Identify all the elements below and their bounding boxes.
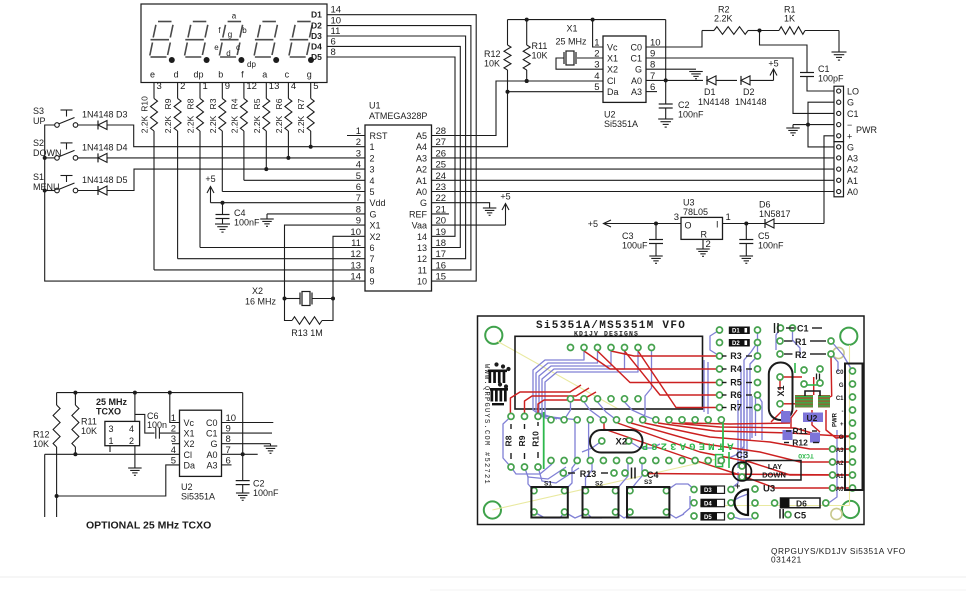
switch S2 DOWN — [33, 138, 78, 160]
svg-text:11: 11 — [418, 265, 427, 275]
svg-text:1N4148: 1N4148 — [698, 97, 730, 107]
svg-text:9: 9 — [225, 81, 230, 92]
svg-text:2.2K: 2.2K — [163, 115, 173, 133]
svg-text:A3: A3 — [206, 460, 217, 470]
svg-text:C4: C4 — [234, 208, 246, 218]
svg-text:R10: R10 — [531, 431, 541, 447]
svg-text:100nF: 100nF — [253, 488, 279, 498]
svg-text:dp: dp — [193, 70, 203, 80]
capacitor C3 100uF — [622, 224, 663, 257]
svg-text:R6: R6 — [274, 98, 284, 109]
PCB green silk lines — [544, 363, 818, 469]
svg-text:R5: R5 — [730, 378, 742, 388]
wire S1/D5 to U1 pin 4 — [107, 169, 365, 190]
IC U2 Si5351A — [594, 36, 660, 129]
svg-text:REF: REF — [409, 209, 428, 219]
svg-text:4: 4 — [356, 160, 361, 171]
svg-text:C2: C2 — [253, 479, 265, 489]
ground below C2 — [658, 119, 673, 127]
svg-text:C5: C5 — [758, 231, 770, 241]
svg-text:A3: A3 — [836, 448, 844, 454]
caption OPTIONAL 25 MHz TCXO — [86, 520, 211, 532]
display segment pin numbers 3 2 1 9 12 13 4 5 — [157, 81, 319, 92]
svg-text:R8: R8 — [186, 98, 196, 109]
svg-text:R7: R7 — [296, 98, 306, 109]
svg-text:R4: R4 — [730, 364, 742, 374]
wire U1 X1 pin 9 to crystal X2 — [285, 225, 366, 298]
diode D1 1N4148 — [698, 76, 737, 107]
wire rail to TCXO pin 4 and C6 — [135, 393, 155, 434]
svg-text:D6: D6 — [759, 200, 771, 210]
svg-text:A2: A2 — [836, 461, 844, 467]
resistor R12 10K (TCXO option) — [33, 393, 60, 517]
svg-text:+: + — [840, 422, 844, 428]
PCB silkscreen X1 footprint — [769, 363, 793, 421]
svg-text:-: - — [842, 409, 844, 415]
svg-text:X2: X2 — [252, 286, 263, 296]
svg-text:10: 10 — [417, 277, 427, 287]
svg-text:1N5817: 1N5817 — [759, 209, 791, 219]
resistor R12 10K — [484, 20, 511, 92]
svg-text:12: 12 — [417, 254, 427, 264]
svg-text:S1: S1 — [544, 481, 552, 488]
svg-text:R11: R11 — [532, 41, 548, 51]
svg-text:3: 3 — [594, 60, 599, 71]
crystal X2 16 MHz — [245, 286, 335, 307]
ground at U2 G pin 8 — [646, 69, 703, 79]
svg-text:A3: A3 — [631, 87, 642, 97]
svg-text:Vdd: Vdd — [370, 198, 386, 208]
wire U2 C1 to connector — [646, 58, 834, 113]
svg-text:+: + — [735, 481, 740, 491]
svg-text:7: 7 — [370, 254, 375, 264]
svg-text:8: 8 — [370, 265, 375, 275]
svg-text:G: G — [839, 383, 844, 389]
resistor R7 2.2K — [296, 83, 314, 149]
svg-text:D4: D4 — [311, 41, 322, 51]
svg-text:2: 2 — [171, 424, 176, 435]
svg-text:100nF: 100nF — [234, 218, 260, 228]
svg-text:UP: UP — [33, 116, 46, 126]
wire D2 from display to U1 pin 31 — [327, 26, 471, 270]
svg-text:3: 3 — [109, 424, 114, 434]
resistor R11 10K (TCXO option) — [72, 393, 97, 457]
ground below C5 — [740, 256, 754, 263]
wire U2 A3 stub (TCXO option) — [222, 464, 232, 466]
wire U2 Vc to rail — [593, 20, 603, 47]
PCB pads display footprint — [568, 345, 655, 402]
svg-text:2: 2 — [129, 436, 134, 446]
svg-text:D2: D2 — [311, 21, 322, 31]
svg-text:R6: R6 — [730, 390, 742, 400]
svg-text:1N4148 D4: 1N4148 D4 — [82, 143, 128, 153]
svg-text:1N4148 D3: 1N4148 D3 — [82, 110, 128, 120]
svg-text:A3: A3 — [416, 153, 427, 163]
svg-text:R11: R11 — [792, 426, 807, 436]
svg-text:D1: D1 — [704, 87, 716, 97]
switch S1 MENU — [33, 172, 78, 193]
svg-text:2: 2 — [356, 137, 361, 148]
svg-text:11: 11 — [331, 26, 341, 37]
svg-text:−: − — [847, 120, 852, 130]
wire U1 A4 to U2 Da (SDA) — [432, 90, 604, 147]
resistor R3 2.2K — [208, 83, 226, 192]
resistor R2 2.2K — [702, 5, 762, 35]
diode D6 1N5817 — [746, 200, 824, 229]
svg-text:S3: S3 — [644, 479, 652, 486]
svg-text:X2: X2 — [370, 232, 381, 242]
PCB pads C3 U3 — [739, 463, 758, 519]
svg-text:dp: dp — [247, 60, 256, 69]
svg-text:4: 4 — [291, 81, 296, 92]
capacitor C1 100pF — [760, 31, 845, 92]
PCB pads switches S1 S2 S3 — [531, 488, 669, 515]
svg-text:3: 3 — [356, 148, 361, 159]
svg-text:6: 6 — [356, 182, 361, 193]
svg-text:100pF: 100pF — [818, 74, 844, 84]
wire U1 A2 to connector — [432, 168, 835, 170]
wire U2 A3 stub — [646, 91, 657, 93]
resistor R6 2.2K — [274, 83, 292, 160]
svg-text:X1: X1 — [776, 385, 786, 396]
svg-text:100nF: 100nF — [678, 110, 704, 120]
svg-text:10K: 10K — [484, 59, 500, 69]
svg-text:U2: U2 — [604, 110, 616, 120]
wire R3 to U1 pin 6 — [222, 191, 365, 193]
svg-text:C0: C0 — [206, 418, 218, 428]
wire U1 REF stub — [432, 213, 450, 215]
diode D5 1N4148 — [78, 175, 128, 195]
PCB connector header outline and labels — [833, 364, 863, 494]
svg-text:14: 14 — [331, 5, 342, 16]
PCB board outline — [478, 316, 865, 525]
ground at U1 pin 8 — [260, 214, 365, 226]
svg-text:2.2K: 2.2K — [274, 115, 284, 133]
svg-text:+: + — [847, 131, 852, 141]
svg-text:G: G — [420, 198, 427, 208]
svg-text:C0: C0 — [630, 43, 642, 53]
svg-text:a: a — [262, 70, 267, 80]
ground after R1 — [832, 31, 847, 61]
svg-text:2: 2 — [594, 49, 599, 60]
svg-text:D5: D5 — [311, 52, 322, 62]
svg-text:2.2K: 2.2K — [208, 115, 218, 133]
PCB silkscreen C5 — [780, 509, 807, 522]
svg-text:78L05: 78L05 — [683, 207, 708, 217]
svg-text:C0: C0 — [836, 370, 844, 376]
svg-text:4: 4 — [594, 71, 599, 82]
PCB silkscreen C1 R1 R2 labels — [775, 323, 827, 360]
svg-text:031421: 031421 — [771, 555, 802, 565]
svg-text:Vc: Vc — [184, 418, 195, 428]
svg-text:2.2K: 2.2K — [140, 115, 150, 133]
wire R8 to U1 pin 11 — [200, 247, 365, 249]
oscillator module 25 MHz TCXO — [96, 397, 140, 452]
footer drawing title text — [771, 546, 906, 565]
svg-text:R3: R3 — [730, 351, 742, 361]
svg-text:R10: R10 — [140, 96, 150, 112]
svg-text:8: 8 — [331, 47, 336, 58]
PCB mounting holes — [484, 327, 859, 520]
svg-text:D2: D2 — [743, 87, 755, 97]
svg-text:3: 3 — [157, 81, 162, 92]
PCB left edge silkscreen text www.qrpguys.com — [482, 364, 490, 485]
svg-text:DOWN: DOWN — [762, 471, 786, 480]
svg-text:5: 5 — [370, 187, 375, 197]
svg-text:b: b — [218, 70, 223, 80]
svg-text:R12: R12 — [792, 438, 808, 448]
wire U2 C0 to R2 — [646, 31, 702, 48]
svg-text:Si5351A: Si5351A — [181, 492, 215, 502]
svg-text:12: 12 — [246, 81, 257, 92]
svg-text:e: e — [150, 70, 155, 80]
svg-text:11: 11 — [351, 238, 361, 249]
PCB blue traces right area — [704, 328, 853, 503]
wire U1 X2 pin 10 to crystal X2 — [333, 236, 365, 298]
svg-text:10K: 10K — [532, 51, 548, 61]
svg-text:Si5351A: Si5351A — [604, 119, 638, 129]
svg-text:R5: R5 — [252, 98, 262, 109]
svg-text:U2: U2 — [807, 413, 818, 423]
svg-text:C1: C1 — [836, 396, 844, 402]
diode D3 1N4148 — [78, 110, 128, 130]
scan artifact line bottom — [0, 577, 966, 590]
svg-text:C5: C5 — [794, 511, 807, 522]
display middle digit segment letters a f g b e d c dp — [214, 12, 256, 70]
PCB pads R13 C4 C3 U3 D6 C5 — [560, 470, 829, 518]
svg-text:1: 1 — [726, 212, 731, 223]
svg-text:RST: RST — [370, 131, 389, 141]
svg-text:1K: 1K — [784, 14, 795, 24]
svg-text:R8: R8 — [504, 435, 514, 446]
svg-text:R9: R9 — [163, 98, 173, 109]
display digits segments — [150, 22, 312, 58]
svg-text:D3: D3 — [311, 31, 322, 41]
svg-text:U3: U3 — [763, 484, 775, 495]
svg-text:X1: X1 — [184, 429, 195, 439]
svg-text:C2: C2 — [678, 100, 690, 110]
svg-text:10K: 10K — [33, 439, 49, 449]
ground below C4 — [215, 224, 230, 232]
crystal X1 25 MHz — [555, 24, 603, 70]
wire U2 C1 stub (TCXO option) — [222, 432, 273, 434]
wire connector PWR plus to D6 — [824, 136, 834, 224]
svg-text:A2: A2 — [847, 165, 858, 175]
power +5 at U1 Vaa — [432, 192, 511, 226]
ground at U3 pin 2 — [696, 239, 710, 256]
PCB yellow jumper traces — [492, 341, 849, 510]
wire U2 A0 row with D1 D2 to +5 — [646, 78, 703, 82]
svg-text:PWR: PWR — [833, 412, 839, 427]
svg-text:A1: A1 — [847, 176, 858, 186]
wire D4 from display to U1 pin 33 — [327, 46, 460, 247]
svg-text:S3: S3 — [33, 106, 44, 116]
svg-text:R13: R13 — [580, 469, 597, 479]
svg-text:D1: D1 — [311, 10, 322, 20]
wire D3 from display to U1 pin 32 — [327, 36, 466, 259]
resistor R10 2.2K — [140, 83, 158, 270]
capacitor C2 100nF (TCXO option) — [236, 393, 279, 498]
PCB pads R3-R7 D1 D2 — [717, 327, 761, 411]
PCB purple pads U2 area — [781, 411, 820, 443]
svg-text:Cl: Cl — [184, 450, 193, 460]
PCB blue traces bottom area — [503, 417, 752, 520]
svg-text:b: b — [242, 26, 247, 35]
svg-text:A3: A3 — [847, 153, 858, 163]
svg-text:A0: A0 — [416, 187, 427, 197]
IC U2 Si5351A (TCXO option) — [171, 410, 236, 501]
svg-text:13: 13 — [269, 81, 280, 92]
PCB pads D3 D4 D5 — [691, 487, 734, 520]
svg-text:C1: C1 — [206, 429, 218, 439]
power +5 after D2 — [768, 59, 778, 81]
svg-text:A1: A1 — [416, 176, 427, 186]
svg-text:R9: R9 — [517, 435, 527, 446]
svg-text:5: 5 — [313, 81, 318, 92]
svg-text:C3: C3 — [622, 231, 634, 241]
ground below C3 — [649, 256, 663, 263]
svg-text:G: G — [847, 98, 854, 108]
wire D1 from display to U1 pin 30 — [327, 15, 476, 281]
svg-text:A0: A0 — [206, 450, 217, 460]
capacitor C6 100n — [147, 411, 180, 439]
svg-text:R: R — [701, 230, 708, 240]
svg-text:G: G — [847, 142, 854, 152]
svg-text:c: c — [285, 70, 290, 80]
svg-text:C1: C1 — [847, 109, 859, 119]
svg-text:G: G — [635, 65, 642, 75]
svg-text:D1: D1 — [732, 329, 740, 335]
svg-text:6: 6 — [370, 243, 375, 253]
svg-text:X2: X2 — [616, 437, 628, 448]
wire U2 A0 row (TCXO option) — [222, 452, 258, 456]
PCB pads connector header — [830, 368, 856, 491]
capacitor C2 100nF — [659, 20, 704, 120]
svg-text:d: d — [226, 49, 230, 58]
switch S3 UP — [33, 106, 78, 127]
power +5 to U1 Vdd — [205, 174, 365, 205]
svg-text:R12: R12 — [484, 49, 501, 59]
resistor R8 2.2K — [186, 83, 204, 248]
svg-text:R12: R12 — [33, 430, 50, 440]
node +V rail above U2 — [508, 18, 666, 22]
svg-text:2.2K: 2.2K — [296, 115, 306, 133]
diode D2 1N4148 — [735, 76, 774, 107]
svg-text:X1: X1 — [566, 24, 577, 34]
svg-text:S2: S2 — [595, 481, 603, 488]
PCB silkscreen R8 R9 R10 labels — [504, 422, 541, 459]
PCB red traces display to resistors — [510, 351, 719, 414]
svg-text:R13 1M: R13 1M — [291, 328, 323, 338]
PCB silkscreen smd cap C2 marks — [817, 374, 820, 380]
ground at U1 pin 22 — [432, 203, 497, 216]
display decimal point dots — [169, 57, 314, 63]
svg-text:a: a — [232, 12, 237, 21]
svg-text:WWW.QRPGUYS.COM #52721: WWW.QRPGUYS.COM #52721 — [482, 364, 490, 485]
svg-text:Vaa: Vaa — [412, 221, 427, 231]
resistor R11 10K — [523, 20, 547, 83]
wire switch common rail to U1 pin 14 — [43, 125, 365, 281]
svg-text:5: 5 — [356, 171, 361, 182]
svg-text:D6: D6 — [796, 498, 807, 508]
svg-text:13: 13 — [350, 260, 361, 271]
IC U1 ATMEGA328P — [350, 101, 446, 292]
PCB pads R8 R9 R10 — [508, 413, 541, 470]
svg-text:A0: A0 — [631, 76, 642, 86]
svg-text:X2: X2 — [184, 439, 195, 449]
wire U1 A3 to connector — [432, 157, 835, 159]
svg-text:R1: R1 — [795, 337, 807, 347]
PCB red traces bottom fan — [604, 423, 853, 488]
PCB green silk text ATMEGA328P — [638, 440, 733, 452]
svg-text:U3: U3 — [683, 198, 695, 208]
PCB silkscreen R13 C4 — [568, 468, 659, 481]
svg-text:A2: A2 — [416, 165, 427, 175]
svg-text:X1: X1 — [370, 221, 381, 231]
capacitor C5 100nF — [739, 222, 784, 257]
wire U2 C0 stub (TCXO option) — [222, 422, 274, 424]
svg-text:100n: 100n — [147, 420, 167, 430]
svg-text:4: 4 — [370, 176, 375, 186]
svg-text:17: 17 — [436, 249, 447, 260]
display digit pin numbers 14 10 11 6 8 — [331, 5, 342, 58]
display module DSP1 (5-digit 7-segment) outline — [141, 4, 327, 83]
PCB silkscreen C3 electrolytic — [733, 450, 752, 491]
svg-text:LO: LO — [847, 87, 859, 97]
svg-text:2: 2 — [706, 239, 711, 250]
svg-text:16: 16 — [436, 260, 447, 271]
svg-text:18: 18 — [436, 238, 447, 249]
svg-text:I: I — [716, 220, 719, 230]
wire S2/D4 to U1 pin 3 — [107, 157, 365, 159]
svg-text:16 MHz: 16 MHz — [245, 297, 277, 307]
TCXO section +V rail — [57, 391, 243, 395]
svg-text:ATMEGA328P: ATMEGA328P — [369, 111, 427, 121]
PCB silkscreen U3 TO-92 — [735, 484, 776, 516]
svg-text:1: 1 — [370, 142, 375, 152]
PCB silkscreen D1 D2 — [729, 327, 750, 348]
svg-text:3: 3 — [674, 212, 679, 223]
PCB title silkscreen Si5351A/MS5351M VFO — [536, 320, 686, 338]
regulator U3 78L05 — [674, 198, 747, 251]
svg-text:D4: D4 — [704, 502, 712, 508]
svg-text:D2: D2 — [732, 341, 740, 347]
wire U1 RST stub — [347, 135, 365, 137]
wire Cl row (TCXO option) — [45, 454, 180, 517]
svg-text:R4: R4 — [229, 98, 239, 109]
wire D5 from display to U1 pin 34 — [327, 57, 455, 236]
svg-text:ATMEGA328P: ATMEGA328P — [638, 440, 733, 452]
svg-text:R2: R2 — [795, 350, 807, 360]
wire U1 A1 to connector — [432, 179, 835, 181]
svg-text:U2: U2 — [181, 482, 193, 492]
svg-text:A4: A4 — [416, 142, 427, 152]
svg-text:15: 15 — [436, 272, 447, 283]
svg-text:3: 3 — [370, 165, 375, 175]
svg-text:OPTIONAL 25 MHz TCXO: OPTIONAL 25 MHz TCXO — [86, 520, 211, 532]
svg-text:10K: 10K — [81, 426, 97, 436]
svg-text:2.2K: 2.2K — [229, 115, 239, 133]
PCB pads DIP-28 U1 footprint — [548, 417, 724, 464]
PCB display module footprint outline — [515, 336, 703, 409]
svg-text:C1: C1 — [797, 324, 809, 334]
ground at TCXO pin 2 — [128, 446, 142, 476]
ground at connector PWR minus — [786, 125, 800, 136]
PCB silkscreen switches S1 S2 S3 — [531, 479, 669, 518]
svg-text:Cl: Cl — [607, 76, 616, 86]
PCB QRPGUYS logo — [488, 362, 511, 405]
capacitor C4 100nF — [216, 203, 261, 228]
